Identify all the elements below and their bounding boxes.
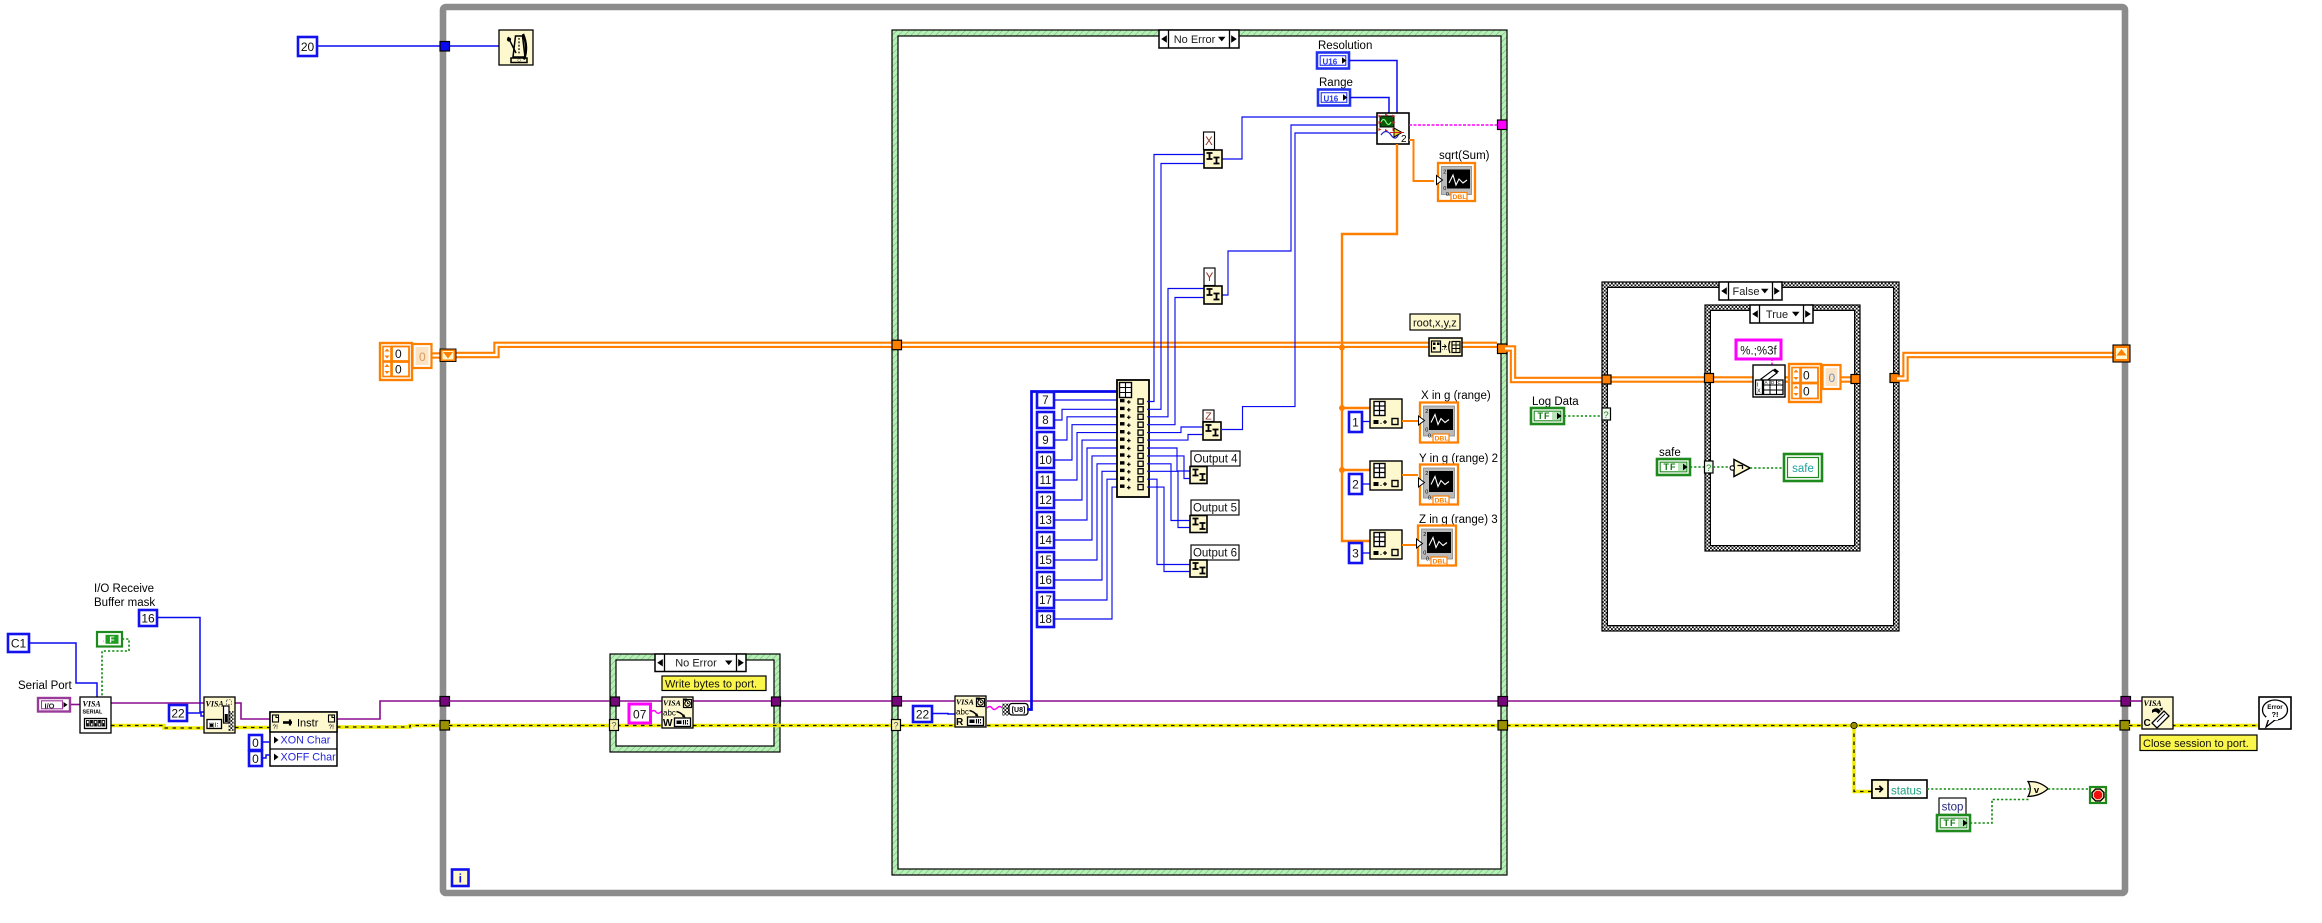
svg-text:sqrt(Sum): sqrt(Sum)	[1439, 150, 1490, 162]
svg-text:0: 0	[1829, 371, 1836, 385]
svg-text:No Error: No Error	[1174, 34, 1216, 46]
index array block	[1117, 380, 1149, 497]
small case selector No Error	[655, 654, 746, 672]
pink wire subvi to case border	[1409, 124, 1497, 126]
svg-text:2: 2	[1401, 134, 1407, 145]
svg-text:Write bytes to port.: Write bytes to port.	[665, 679, 757, 691]
svg-text:0: 0	[1803, 369, 1810, 383]
svg-text:Z: Z	[1205, 411, 1212, 423]
purple wire to VISA close	[2130, 700, 2142, 702]
label Output 6	[1191, 545, 1239, 560]
svg-text:U16: U16	[1324, 95, 1339, 104]
svg-text:16: 16	[1039, 575, 1052, 587]
wire C1 to serial vi	[29, 643, 97, 697]
svg-text:Y in g (range) 2: Y in g (range) 2	[1419, 453, 1498, 465]
svg-text:.: .	[1380, 481, 1382, 488]
purple tunnel loop right	[2121, 697, 2131, 707]
control Range U16	[1318, 90, 1350, 106]
svg-text:0: 0	[419, 350, 426, 364]
orange tunnel True left	[1705, 374, 1714, 383]
sum branch to index 1	[1342, 407, 1371, 409]
svg-text:XON Char: XON Char	[281, 735, 331, 747]
svg-text:▣I∶: ▣I∶	[209, 722, 219, 729]
svg-text:F: F	[1544, 411, 1550, 421]
loop left shift register	[440, 349, 456, 362]
wire 16 to buffer vi	[157, 618, 204, 713]
dotted wire or to stop button	[2048, 788, 2090, 790]
purple tunnel small case left	[611, 697, 620, 706]
svg-text:DBL: DBL	[1433, 559, 1447, 566]
svg-text:17: 17	[1039, 595, 1052, 607]
numeric constants 7-18	[1037, 392, 1054, 408]
string constant %.;%3f	[1736, 340, 1781, 359]
orange tunnel case right	[1498, 344, 1508, 354]
chart Y in g	[1420, 465, 1458, 505]
wire to X chart	[1402, 420, 1418, 422]
constant 22 (read)	[913, 706, 932, 722]
join numbers Z	[1203, 422, 1221, 440]
array constant 0 0	[380, 343, 412, 380]
svg-text:VISA: VISA	[956, 698, 974, 707]
chart X in g	[1420, 403, 1458, 443]
svg-text:Close session to port.: Close session to port.	[2143, 738, 2249, 750]
svg-text:3: 3	[1352, 546, 1359, 560]
array element box	[413, 344, 432, 368]
boolean constant F	[97, 632, 122, 647]
svg-text:0: 0	[1803, 385, 1810, 399]
svg-text:1: 1	[1352, 415, 1359, 429]
svg-text:root,x,y,z: root,x,y,z	[1413, 318, 1457, 330]
error selector tunnel small case	[610, 720, 619, 731]
svg-text:abc: abc	[956, 708, 969, 717]
svg-text:i: i	[459, 872, 462, 886]
chart Z in g	[1418, 526, 1456, 566]
big case structure No Error	[895, 33, 1504, 872]
svg-text:status: status	[1891, 786, 1922, 798]
VISA close icon	[2142, 697, 2173, 729]
orange array wire through False/True to format node	[1608, 376, 1857, 382]
constant 0 XOFF	[249, 751, 262, 766]
svg-text:XOFF Char: XOFF Char	[281, 752, 337, 764]
svg-text:◇: ◇	[517, 58, 521, 64]
control Log Data TF	[1531, 408, 1564, 424]
svg-text:stop: stop	[1942, 801, 1964, 813]
svg-text:SERIAL: SERIAL	[83, 710, 103, 716]
svg-text:v: v	[2034, 785, 2040, 796]
dotted wire status to or	[1927, 788, 2029, 790]
purple wire VISA write to big case	[693, 700, 955, 702]
svg-text:R: R	[956, 717, 964, 728]
False case structure	[1605, 285, 1897, 629]
svg-text:T: T	[1538, 411, 1544, 421]
label stop	[1939, 798, 1966, 815]
svg-text:0: 0	[395, 347, 402, 361]
svg-text:Resolution: Resolution	[1318, 40, 1372, 52]
svg-text:.: .	[1380, 550, 1382, 557]
orange tunnel False right	[1890, 374, 1899, 383]
svg-text:11: 11	[1040, 475, 1052, 487]
svg-text:07: 07	[633, 708, 647, 722]
constant 22 (buffer)	[169, 705, 187, 721]
purple wire VISA read to loop right	[987, 700, 2126, 702]
wire F dotted to serial vi	[102, 639, 129, 697]
join numbers Output 5	[1190, 516, 1207, 533]
stop button	[2090, 787, 2106, 803]
element box indicator	[1823, 365, 1841, 389]
svg-text:False: False	[1733, 286, 1760, 298]
svg-text:X: X	[1757, 389, 1761, 395]
svg-text:0: 0	[395, 363, 402, 377]
wire to Y chart	[1402, 474, 1418, 476]
dotted wire log data to False selector	[1564, 415, 1602, 417]
Serial Port I/O control	[38, 698, 70, 712]
error wire branch down to status	[1854, 726, 1872, 792]
join output risers to subvi	[1222, 117, 1377, 159]
control stop TF	[1937, 815, 1970, 831]
pink wire VISA read to byte array	[987, 707, 1002, 710]
purple VISA wire left section	[70, 704, 80, 706]
orange array wire from shift register to case	[454, 345, 896, 355]
unbundle status	[1872, 780, 1927, 798]
svg-text:?!: ?!	[329, 724, 335, 731]
sum branch to index 2	[1342, 469, 1371, 471]
orange tunnel False left	[1602, 375, 1611, 384]
loop right shift register	[2113, 345, 2130, 362]
svg-text:F: F	[1950, 818, 1956, 828]
index trio Z: constant 3	[1349, 543, 1362, 563]
svg-text:Instr: Instr	[297, 718, 319, 730]
svg-text:VISA: VISA	[663, 699, 681, 708]
string constant 07	[629, 704, 651, 723]
svg-text:DBL: DBL	[1453, 194, 1467, 201]
junction dots	[1339, 345, 1345, 351]
join numbers Y	[1204, 286, 1222, 304]
svg-text:Log Data: Log Data	[1532, 396, 1579, 408]
svg-text:22: 22	[171, 706, 185, 720]
svg-text:?: ?	[893, 721, 898, 731]
svg-text:DBL: DBL	[1435, 436, 1449, 443]
svg-text:?: ?	[1603, 410, 1608, 421]
while loop border	[443, 7, 2125, 893]
constant 0 XON	[249, 735, 262, 750]
svg-text:0: 0	[252, 752, 259, 766]
svg-text:22: 22	[916, 707, 930, 721]
orange array wire case to False structure	[1505, 349, 1608, 381]
dotted wire stop to or	[1970, 800, 2029, 824]
control safe TF	[1657, 459, 1690, 475]
control Resolution U16	[1317, 53, 1349, 69]
or gate	[2028, 781, 2048, 796]
svg-text:Output 4: Output 4	[1193, 454, 1238, 466]
svg-text:Output 6: Output 6	[1193, 548, 1237, 560]
orange tunnel case left	[892, 340, 902, 350]
dotted wire to not gate	[1713, 466, 1732, 468]
True case selector	[1750, 305, 1813, 323]
orange wire subvi to sqrt chart	[1409, 140, 1434, 181]
VISA write icon	[662, 697, 693, 728]
chart sqrt(Sum)	[1438, 163, 1475, 201]
small case structure No Error (write)	[613, 657, 777, 749]
svg-text:I/O: I/O	[45, 701, 55, 710]
svg-text:?!: ?!	[2271, 710, 2278, 719]
svg-text:16: 16	[141, 611, 155, 625]
orange array wire False to loop shift register	[1897, 355, 2116, 379]
svg-text:20: 20	[301, 40, 315, 54]
svg-text:2: 2	[1443, 170, 1446, 176]
error wire under VISA write to big case	[693, 724, 955, 727]
svg-text:Serial Port: Serial Port	[18, 680, 72, 692]
svg-text:Z in g (range) 3: Z in g (range) 3	[1419, 514, 1498, 526]
wire 20 to wait-ms	[317, 45, 499, 47]
purple wire inside loop to VISA write	[449, 700, 662, 702]
orange sum trunk wire	[1342, 144, 1397, 541]
svg-text:safe: safe	[1659, 447, 1681, 459]
svg-text:DBL: DBL	[1435, 498, 1449, 505]
svg-text:Output 5: Output 5	[1193, 503, 1237, 515]
label Y	[1204, 268, 1215, 286]
selector tunnel False	[1602, 408, 1611, 420]
svg-text:No Error: No Error	[675, 658, 717, 670]
label X	[1204, 132, 1215, 150]
dotted wire not to safe indicator	[1750, 467, 1784, 469]
array to cluster icon root	[1429, 338, 1462, 356]
index array icon 3	[1370, 530, 1402, 559]
svg-text:W: W	[663, 718, 673, 729]
error tunnel loop left	[440, 721, 450, 731]
join numbers Output 4	[1190, 467, 1207, 484]
svg-text:8: 8	[1042, 415, 1048, 427]
svg-text:?!: ?!	[273, 724, 279, 731]
byte array wire up to index block	[1027, 392, 1117, 710]
svg-text:VISA: VISA	[2144, 699, 2163, 708]
svg-text:Range: Range	[1319, 77, 1353, 89]
free label Write bytes to port	[662, 676, 766, 691]
svg-text:T: T	[1944, 818, 1950, 828]
label root,x,y,z	[1410, 314, 1460, 330]
svg-text:Buffer mask: Buffer mask	[94, 597, 155, 609]
index array icon 1	[1370, 399, 1402, 428]
svg-text:[U8]: [U8]	[1012, 707, 1026, 714]
constant C1	[8, 634, 29, 652]
svg-text:F: F	[1670, 462, 1676, 472]
label Output 5	[1191, 500, 1239, 515]
wire resolution to subvi	[1349, 61, 1397, 114]
purple tunnel small case right	[772, 697, 781, 706]
svg-text:VISA: VISA	[83, 700, 102, 709]
purple tunnel big case left	[892, 697, 902, 707]
orange tunnel True right	[1851, 375, 1860, 384]
join numbers Output 6	[1190, 560, 1207, 577]
svg-text:12: 12	[1039, 495, 1052, 507]
svg-text:2: 2	[1425, 471, 1428, 477]
svg-text:9: 9	[1042, 435, 1048, 447]
magenta tunnel case right	[1498, 120, 1508, 130]
wire 22 to VISA read	[932, 713, 955, 716]
join numbers X	[1204, 150, 1222, 168]
index trio X: constant 1	[1349, 412, 1362, 432]
False case selector	[1719, 282, 1782, 300]
svg-text:I/O Receive: I/O Receive	[94, 583, 154, 595]
svg-text:X in g (range): X in g (range)	[1421, 390, 1491, 402]
label Output 4	[1191, 451, 1240, 466]
error wire VISA read to loop right	[987, 724, 2125, 727]
big case selector No Error	[1159, 30, 1239, 48]
svg-text:2: 2	[1425, 409, 1428, 415]
svg-text:14: 14	[1039, 535, 1052, 547]
format into string icon	[1753, 365, 1785, 397]
string to byte array U8	[1002, 704, 1009, 716]
wait ms metronome icon	[499, 30, 533, 65]
svg-text:.: .	[1380, 419, 1382, 426]
svg-text:2: 2	[1423, 532, 1426, 538]
blue tunnel on loop border	[440, 42, 450, 52]
VISA set buffer size icon	[204, 697, 235, 733]
dotted wire safe to True selector	[1690, 466, 1704, 468]
pink dotted wire to format node	[1771, 359, 1773, 365]
array indicator 0 0	[1789, 364, 1821, 402]
svg-text:15: 15	[1039, 555, 1052, 567]
svg-text:Y: Y	[1206, 272, 1214, 284]
label Z	[1203, 410, 1214, 422]
svg-text:abc: abc	[663, 709, 676, 718]
svg-text:F: F	[109, 635, 114, 645]
index trio Y: constant 2	[1349, 474, 1362, 494]
svg-text:T: T	[1664, 462, 1670, 472]
svg-text:0: 0	[252, 736, 259, 750]
svg-text:safe: safe	[1792, 463, 1814, 475]
pink wire 07 to VISA write	[651, 711, 662, 714]
property node Instr	[270, 712, 337, 766]
VISA read icon	[955, 696, 986, 727]
orange array wire element to shift register	[431, 352, 442, 358]
label Close session to port	[2140, 735, 2257, 751]
not gate	[1734, 460, 1750, 477]
svg-text:?: ?	[1706, 463, 1711, 474]
VISA configure serial port icon	[80, 697, 111, 733]
svg-text:%.;%3f: %.;%3f	[1740, 346, 1777, 358]
iteration terminal i	[452, 870, 469, 887]
purple tunnel loop left	[440, 697, 450, 707]
svg-text:2: 2	[1352, 477, 1359, 491]
svg-text:7: 7	[1042, 395, 1048, 407]
simple error handler icon	[2259, 697, 2291, 729]
svg-text:C1: C1	[11, 636, 27, 650]
error tunnel loop right	[2120, 721, 2130, 731]
svg-text:·: ·	[101, 638, 105, 645]
error selector tunnel big case	[892, 720, 901, 731]
svg-text:13: 13	[1039, 515, 1052, 527]
wire to Z chart	[1402, 544, 1417, 546]
purple tunnel big case right	[1498, 697, 1508, 707]
svg-text:18: 18	[1039, 614, 1052, 626]
wire range to subvi	[1350, 98, 1389, 114]
svg-text:A: A	[1765, 380, 1768, 385]
index array icon 2	[1370, 461, 1402, 490]
wire 22 to buffer vi	[187, 713, 204, 716]
svg-text:VISA: VISA	[206, 700, 225, 709]
accelerometer subVI	[1377, 113, 1409, 144]
error wire to VISA close and error handler	[2129, 724, 2142, 727]
svg-text:True: True	[1766, 309, 1788, 321]
svg-text:?: ?	[611, 721, 616, 731]
constant 16	[139, 610, 157, 626]
True case structure	[1708, 308, 1858, 549]
svg-text:C: C	[2144, 718, 2151, 729]
indicator safe	[1784, 454, 1822, 481]
wires constants to index block	[1054, 399, 1117, 401]
svg-text:U16: U16	[1323, 58, 1338, 67]
constant 20	[298, 37, 317, 56]
selector tunnel True	[1705, 461, 1714, 473]
svg-text:10: 10	[1039, 455, 1052, 467]
error wire inside loop	[449, 724, 662, 727]
orange array wire inside case to cluster icon	[898, 342, 1497, 348]
wires index block to join nodes	[1147, 155, 1204, 402]
svg-text:X: X	[1205, 136, 1213, 148]
error wire left section	[111, 726, 204, 729]
error tunnel big case right	[1498, 721, 1508, 731]
